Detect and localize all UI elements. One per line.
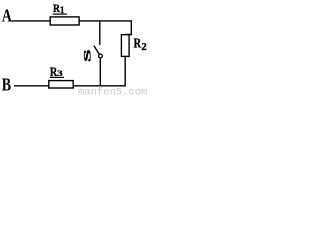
svg-text:B: B (2, 76, 12, 95)
resistor R3 (49, 65, 73, 88)
wire corner down to R2 (125, 21, 132, 35)
wire R2 down to bottom wire (124, 56, 126, 86)
wire switch to bottom wire (99, 58, 101, 86)
svg-text:R: R (134, 35, 142, 51)
wire top wire down to switch (99, 20, 101, 45)
svg-text:manfen5.com: manfen5.com (78, 87, 147, 97)
wire B to R3 (14, 85, 50, 87)
resistor R2 (121, 35, 146, 57)
wire A to R1 (12, 20, 52, 22)
svg-text:2: 2 (141, 41, 146, 53)
resistor R1 (50, 2, 79, 25)
switch S contact circle (99, 54, 103, 58)
wire R1 to top-right corner (79, 20, 132, 22)
switch S blade (94, 46, 99, 55)
svg-text:A: A (2, 7, 12, 26)
svg-text:S: S (82, 49, 93, 62)
bottom wire right segment (73, 85, 126, 87)
